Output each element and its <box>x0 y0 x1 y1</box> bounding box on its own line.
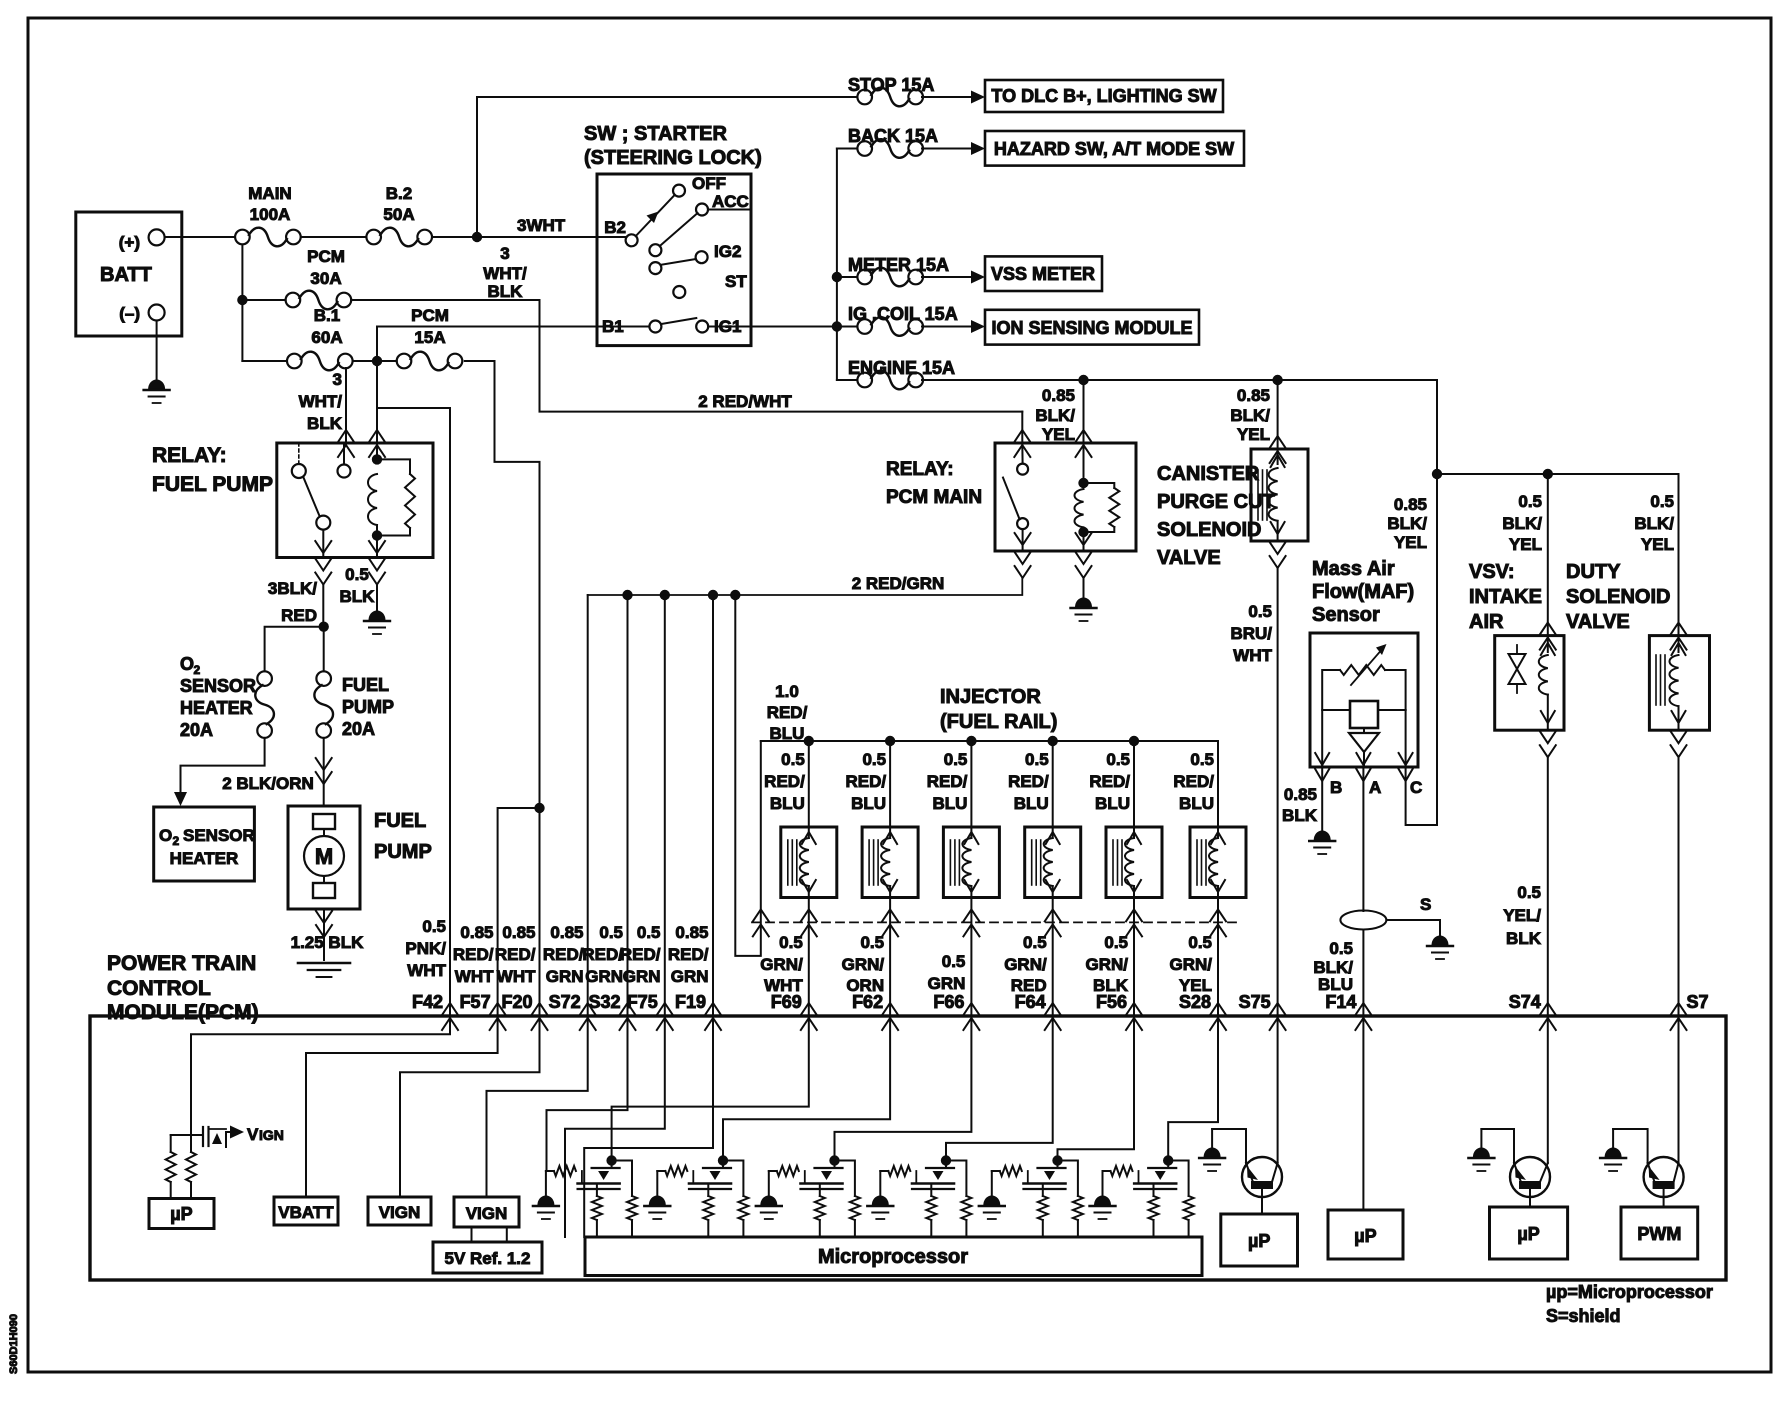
svg-text:5V Ref. 1.2: 5V Ref. 1.2 <box>445 1249 531 1268</box>
svg-text:0.85: 0.85 <box>1394 495 1427 514</box>
svg-text:PCM: PCM <box>307 247 345 266</box>
svg-text:B.2: B.2 <box>386 184 412 203</box>
svg-text:VBATT: VBATT <box>278 1203 334 1222</box>
svg-text:GRN: GRN <box>585 967 623 986</box>
svg-text:IG .COIL 15A: IG .COIL 15A <box>848 304 958 324</box>
svg-text:F14: F14 <box>1325 992 1356 1012</box>
svg-text:TO DLC B+, LIGHTING SW: TO DLC B+, LIGHTING SW <box>991 86 1216 106</box>
svg-text:RED/: RED/ <box>620 945 661 964</box>
svg-text:BLU: BLU <box>1179 794 1214 813</box>
svg-text:O: O <box>180 654 194 674</box>
svg-text:S7: S7 <box>1687 992 1709 1012</box>
svg-text:0.85: 0.85 <box>1042 386 1075 405</box>
svg-text:ION SENSING MODULE: ION SENSING MODULE <box>991 318 1192 338</box>
svg-text:0.5: 0.5 <box>860 933 884 952</box>
svg-text:RED/: RED/ <box>582 945 623 964</box>
svg-text:GRN: GRN <box>623 967 661 986</box>
svg-text:HEATER: HEATER <box>180 698 253 718</box>
svg-text:C: C <box>1410 778 1422 797</box>
svg-text:SENSOR: SENSOR <box>183 826 255 845</box>
svg-text:YEL: YEL <box>1641 535 1674 554</box>
svg-text:BLK: BLK <box>340 587 376 606</box>
svg-text:DUTY: DUTY <box>1566 561 1621 583</box>
svg-text:RED/: RED/ <box>927 772 968 791</box>
svg-text:ACC: ACC <box>712 192 749 211</box>
svg-text:BLK: BLK <box>1506 929 1542 948</box>
svg-text:VALVE: VALVE <box>1566 611 1630 633</box>
svg-text:100A: 100A <box>250 205 291 224</box>
svg-text:PNK/: PNK/ <box>405 939 446 958</box>
svg-text:GRN: GRN <box>928 974 966 993</box>
svg-text:S60D1H090: S60D1H090 <box>8 1314 20 1374</box>
svg-text:VIGN: VIGN <box>379 1203 421 1222</box>
svg-text:CANISTER: CANISTER <box>1157 463 1260 485</box>
svg-text:0.5: 0.5 <box>862 750 886 769</box>
svg-text:F19: F19 <box>675 992 706 1012</box>
svg-text:(STEERING LOCK): (STEERING LOCK) <box>584 147 762 169</box>
svg-text:SOLENOID: SOLENOID <box>1157 519 1261 541</box>
svg-text:BRU/: BRU/ <box>1230 624 1272 643</box>
svg-text:3: 3 <box>333 370 342 389</box>
svg-text:0.5: 0.5 <box>1106 750 1130 769</box>
svg-text:INTAKE: INTAKE <box>1469 586 1542 608</box>
svg-text:BLK/: BLK/ <box>1502 514 1542 533</box>
svg-text:YEL: YEL <box>1394 533 1427 552</box>
svg-text:15A: 15A <box>414 328 445 347</box>
svg-text:µP: µP <box>1517 1224 1539 1244</box>
svg-text:MODULE(PCM): MODULE(PCM) <box>107 1001 259 1024</box>
svg-text:RED/: RED/ <box>1089 772 1130 791</box>
svg-text:PUMP: PUMP <box>342 697 394 717</box>
svg-text:MAIN: MAIN <box>248 184 291 203</box>
svg-text:PWM: PWM <box>1637 1224 1681 1244</box>
svg-text:2: 2 <box>194 663 201 677</box>
svg-text:2: 2 <box>173 834 180 848</box>
svg-text:RED/: RED/ <box>668 945 709 964</box>
svg-text:0.5: 0.5 <box>1190 750 1214 769</box>
svg-text:WHT: WHT <box>407 961 446 980</box>
svg-text:0.5: 0.5 <box>1517 883 1541 902</box>
svg-text:(+): (+) <box>119 233 140 252</box>
svg-text:F20: F20 <box>501 992 532 1012</box>
svg-text:RED/: RED/ <box>453 945 494 964</box>
svg-text:F66: F66 <box>933 992 964 1012</box>
svg-text:S=shield: S=shield <box>1546 1306 1621 1326</box>
svg-text:GRN/: GRN/ <box>842 955 885 974</box>
svg-text:0.85: 0.85 <box>460 923 493 942</box>
svg-text:V: V <box>247 1125 259 1144</box>
svg-text:WHT/: WHT/ <box>483 264 527 283</box>
svg-text:RED/: RED/ <box>543 945 584 964</box>
svg-text:OFF: OFF <box>692 174 726 193</box>
svg-text:GRN/: GRN/ <box>1004 955 1047 974</box>
svg-text:1.0: 1.0 <box>775 682 799 701</box>
svg-text:VIGN: VIGN <box>466 1204 508 1223</box>
svg-text:SW ; STARTER: SW ; STARTER <box>584 123 728 145</box>
svg-text:PUMP: PUMP <box>374 841 432 863</box>
svg-text:0.5: 0.5 <box>599 923 623 942</box>
svg-text:RED/: RED/ <box>1008 772 1049 791</box>
svg-text:3BLK/: 3BLK/ <box>268 579 317 598</box>
svg-text:ENGINE 15A: ENGINE 15A <box>848 358 955 378</box>
svg-text:3: 3 <box>500 244 509 263</box>
svg-text:RED/: RED/ <box>845 772 886 791</box>
svg-text:PCM: PCM <box>411 306 449 325</box>
svg-text:0.5: 0.5 <box>345 565 369 584</box>
svg-text:BLK: BLK <box>488 282 524 301</box>
svg-text:Microprocessor: Microprocessor <box>818 1246 968 1268</box>
svg-text:F42: F42 <box>412 992 443 1012</box>
svg-text:0.5: 0.5 <box>779 933 803 952</box>
svg-text:BLK: BLK <box>307 414 343 433</box>
svg-text:WHT: WHT <box>1233 646 1272 665</box>
svg-text:VALVE: VALVE <box>1157 547 1221 569</box>
svg-text:YEL/: YEL/ <box>1503 906 1541 925</box>
svg-text:20A: 20A <box>180 720 213 740</box>
svg-text:RED: RED <box>281 606 317 625</box>
svg-text:F64: F64 <box>1015 992 1046 1012</box>
svg-text:B2: B2 <box>604 218 626 237</box>
svg-text:BATT: BATT <box>100 264 152 286</box>
svg-text:VSV:: VSV: <box>1469 561 1515 583</box>
svg-text:0.5: 0.5 <box>637 923 661 942</box>
svg-text:BLK/: BLK/ <box>1230 406 1270 425</box>
svg-text:RED/: RED/ <box>764 772 805 791</box>
svg-text:PURGE CUT: PURGE CUT <box>1157 491 1275 513</box>
svg-text:F56: F56 <box>1096 992 1127 1012</box>
svg-text:0.85: 0.85 <box>502 923 535 942</box>
svg-text:0.5: 0.5 <box>422 917 446 936</box>
svg-text:BLU: BLU <box>1095 794 1130 813</box>
svg-text:HEATER: HEATER <box>170 849 239 868</box>
svg-text:WHT/: WHT/ <box>299 392 343 411</box>
svg-text:SOLENOID: SOLENOID <box>1566 586 1670 608</box>
svg-text:S72: S72 <box>549 992 581 1012</box>
svg-text:RED/: RED/ <box>1173 772 1214 791</box>
svg-text:F75: F75 <box>627 992 658 1012</box>
svg-text:GRN: GRN <box>671 967 709 986</box>
svg-text:2 BLK/ORN: 2 BLK/ORN <box>222 774 314 793</box>
svg-text:FUEL: FUEL <box>374 810 426 832</box>
svg-text:0.5: 0.5 <box>1188 933 1212 952</box>
svg-text:INJECTOR: INJECTOR <box>940 686 1041 708</box>
svg-text:(FUEL RAIL): (FUEL RAIL) <box>940 711 1057 733</box>
svg-text:3WHT: 3WHT <box>517 216 566 235</box>
svg-text:WHT: WHT <box>455 967 494 986</box>
svg-text:(–): (–) <box>119 304 140 323</box>
svg-text:20A: 20A <box>342 719 375 739</box>
svg-text:µP: µP <box>1354 1226 1376 1246</box>
svg-text:F62: F62 <box>852 992 883 1012</box>
svg-text:0.5: 0.5 <box>1248 602 1272 621</box>
svg-text:BLK: BLK <box>1282 806 1318 825</box>
svg-text:VSS METER: VSS METER <box>991 264 1095 284</box>
svg-text:BLU: BLU <box>1014 794 1049 813</box>
svg-text:POWER TRAIN: POWER TRAIN <box>107 952 256 975</box>
svg-text:RED/: RED/ <box>767 703 808 722</box>
svg-text:BLK/: BLK/ <box>1035 406 1075 425</box>
svg-text:IG2: IG2 <box>714 242 741 261</box>
svg-text:PCM MAIN: PCM MAIN <box>886 487 982 508</box>
svg-text:GRN/: GRN/ <box>1086 955 1129 974</box>
svg-text:0.85: 0.85 <box>675 923 708 942</box>
svg-text:IGN: IGN <box>259 1127 284 1143</box>
svg-text:0.85: 0.85 <box>1284 785 1317 804</box>
svg-text:0.5: 0.5 <box>1023 933 1047 952</box>
svg-text:RED/: RED/ <box>495 945 536 964</box>
svg-text:WHT: WHT <box>497 967 536 986</box>
svg-text:BLK/: BLK/ <box>1634 514 1674 533</box>
svg-text:0.5: 0.5 <box>1329 939 1353 958</box>
svg-text:S28: S28 <box>1179 992 1211 1012</box>
svg-text:FUEL: FUEL <box>342 675 389 695</box>
svg-text:RELAY:: RELAY: <box>886 459 954 480</box>
svg-text:F69: F69 <box>771 992 802 1012</box>
svg-text:BLU: BLU <box>770 794 805 813</box>
svg-text:S: S <box>1420 895 1431 914</box>
svg-text:0.85: 0.85 <box>1237 386 1270 405</box>
svg-text:30A: 30A <box>310 269 341 288</box>
svg-text:B.1: B.1 <box>314 306 340 325</box>
svg-text:0.5: 0.5 <box>1104 933 1128 952</box>
svg-text:50A: 50A <box>383 205 414 224</box>
svg-text:0.5: 0.5 <box>1518 492 1542 511</box>
svg-text:2 RED/WHT: 2 RED/WHT <box>698 392 792 411</box>
svg-text:YEL: YEL <box>1237 425 1270 444</box>
svg-text:Flow(MAF): Flow(MAF) <box>1312 581 1414 603</box>
svg-text:0.85: 0.85 <box>550 923 583 942</box>
svg-text:60A: 60A <box>311 328 342 347</box>
svg-text:BLK/: BLK/ <box>1387 514 1427 533</box>
svg-text:2 RED/GRN: 2 RED/GRN <box>852 574 945 593</box>
svg-text:FUEL PUMP: FUEL PUMP <box>152 473 273 496</box>
svg-text:ST: ST <box>725 272 747 291</box>
svg-text:0.5: 0.5 <box>781 750 805 769</box>
svg-text:M: M <box>315 844 333 869</box>
svg-text:A: A <box>1369 778 1381 797</box>
svg-text:GRN/: GRN/ <box>760 955 803 974</box>
svg-text:HAZARD SW, A/T MODE SW: HAZARD SW, A/T MODE SW <box>994 139 1234 159</box>
svg-text:RELAY:: RELAY: <box>152 444 227 467</box>
svg-text:µP: µP <box>1248 1231 1270 1251</box>
svg-text:BLU: BLU <box>851 794 886 813</box>
svg-text:µp=Microprocessor: µp=Microprocessor <box>1546 1282 1713 1302</box>
svg-text:GRN: GRN <box>546 967 584 986</box>
svg-text:B1: B1 <box>602 317 624 336</box>
svg-text:µP: µP <box>170 1204 192 1224</box>
svg-text:GRN/: GRN/ <box>1170 955 1213 974</box>
svg-text:S75: S75 <box>1239 992 1271 1012</box>
svg-text:YEL: YEL <box>1042 425 1075 444</box>
svg-text:0.5: 0.5 <box>1025 750 1049 769</box>
svg-text:AIR: AIR <box>1469 611 1504 633</box>
svg-text:B: B <box>1330 778 1342 797</box>
svg-text:Mass Air: Mass Air <box>1312 558 1395 580</box>
svg-text:YEL: YEL <box>1509 535 1542 554</box>
svg-text:F57: F57 <box>460 992 491 1012</box>
svg-text:S74: S74 <box>1509 992 1541 1012</box>
svg-text:SENSOR: SENSOR <box>180 676 256 696</box>
svg-text:CONTROL: CONTROL <box>107 977 211 1000</box>
svg-text:0.5: 0.5 <box>944 750 968 769</box>
svg-text:METER 15A: METER 15A <box>848 255 949 275</box>
svg-text:BLU: BLU <box>932 794 967 813</box>
svg-text:1.25 BLK: 1.25 BLK <box>291 933 364 952</box>
svg-text:Sensor: Sensor <box>1312 604 1380 626</box>
svg-text:S32: S32 <box>588 992 620 1012</box>
svg-text:O: O <box>159 826 172 845</box>
svg-text:0.5: 0.5 <box>1650 492 1674 511</box>
svg-text:0.5: 0.5 <box>942 952 966 971</box>
